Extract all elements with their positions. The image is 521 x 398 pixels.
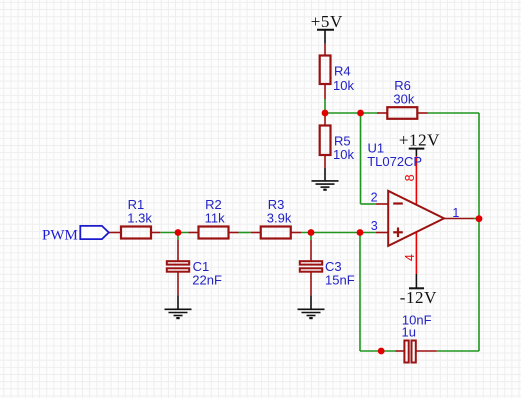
wire R2 right pin: [229, 232, 239, 234]
wire flag to R1: [109, 232, 121, 234]
wire bottom left to cap: [360, 350, 395, 352]
svg-text:8: 8: [403, 174, 417, 181]
resistor R4: [320, 56, 331, 85]
wire R6 left pin: [377, 112, 387, 114]
svg-text:-12V: -12V: [400, 288, 437, 307]
svg-text:10k: 10k: [333, 78, 354, 93]
wire R1 right pin: [151, 232, 160, 234]
capacitor C3: [300, 261, 322, 271]
svg-text:+12V: +12V: [399, 131, 440, 150]
wire main line R1 to R2: [160, 232, 188, 234]
junction node pin3: [357, 229, 364, 236]
svg-text:11k: 11k: [205, 210, 225, 225]
svg-text:10k: 10k: [333, 147, 354, 162]
svg-text:1u: 1u: [402, 325, 416, 340]
wire right rail vertical: [478, 113, 480, 351]
wire C3 bottom lead: [310, 272, 312, 296]
wire C2 right lead: [416, 350, 437, 352]
junction node divider R4/R5: [322, 110, 329, 117]
wire R4 bottom pin: [324, 84, 326, 99]
svg-text:3.9k: 3.9k: [267, 210, 292, 225]
resistor R6: [387, 107, 417, 119]
wire pin3 node down: [359, 233, 361, 352]
wire pin2 horizontal: [361, 203, 377, 205]
PWM label flag: [80, 226, 109, 239]
resistor R5: [320, 126, 331, 156]
svg-text:R6: R6: [394, 78, 411, 93]
wire C3 top lead: [310, 240, 312, 261]
svg-text:1.3k: 1.3k: [127, 210, 152, 225]
ground below C1: [165, 295, 192, 318]
op-amp U1 pin 8 supply line: [415, 156, 417, 205]
svg-text:22nF: 22nF: [192, 273, 222, 288]
wire R3 right pin: [291, 232, 301, 234]
wire main line R3 to op-amp pin 3: [301, 232, 376, 234]
wire op-amp pin 3 stub: [376, 232, 388, 234]
ground below C3: [298, 295, 325, 318]
junction node feedback branch: [357, 110, 364, 117]
power +5V symbol: [317, 30, 334, 44]
wire main line R2 to R3: [239, 232, 251, 234]
svg-text:4: 4: [403, 254, 417, 261]
capacitor C1: [167, 261, 189, 271]
wire divider node to R6: [325, 112, 377, 114]
resistor R2: [199, 227, 229, 239]
junction node bottom cap: [378, 348, 385, 355]
wire C1 top lead: [177, 240, 179, 261]
wire R6 right pin: [417, 112, 427, 114]
svg-text:+5V: +5V: [311, 12, 343, 31]
svg-text:1: 1: [452, 206, 459, 220]
wire R2 left pin: [189, 232, 199, 234]
capacitor C2 10nF/1u: [404, 341, 415, 363]
wire cap to right rail: [437, 350, 479, 352]
junction node R3/C3: [308, 229, 315, 236]
resistor R1: [121, 227, 151, 239]
power +12V symbol: [409, 149, 425, 157]
svg-text:2: 2: [371, 191, 378, 205]
wire +5V to R4: [324, 44, 326, 56]
junction node output: [476, 215, 483, 222]
op-amp U1 minus input mark: [393, 202, 403, 204]
wire C1 bottom lead: [177, 272, 179, 296]
wire R6 to right rail: [428, 112, 480, 114]
wire C2 left lead: [395, 350, 404, 352]
op-amp U1 triangle: [388, 191, 444, 246]
wire C3 branch stub: [310, 233, 312, 241]
wire node to R5 top pin: [324, 113, 326, 126]
svg-text:TL072CP: TL072CP: [367, 154, 422, 169]
svg-text:PWM: PWM: [42, 228, 78, 244]
power -12V symbol: [409, 274, 424, 288]
svg-text:3: 3: [371, 219, 378, 233]
wire node to pin2 vertical: [360, 113, 362, 204]
wire output to rail: [474, 218, 479, 220]
svg-text:30k: 30k: [393, 92, 414, 107]
wire R5 bottom pin: [324, 155, 326, 168]
wire op-amp pin 1 output stub: [444, 218, 474, 220]
junction node R1/C1: [175, 229, 182, 236]
op-amp U1 pin 4 supply line: [415, 232, 417, 274]
wire R3 left pin: [251, 232, 261, 234]
resistor R3: [261, 227, 291, 239]
wire C1 branch stub: [177, 233, 179, 241]
wire op-amp pin 2 stub: [376, 203, 388, 205]
op-amp U1 plus input mark: [393, 228, 403, 238]
wire below R4: [324, 99, 326, 113]
ground below R5: [312, 168, 339, 190]
svg-text:15nF: 15nF: [325, 273, 355, 288]
svg-text:R4: R4: [334, 64, 351, 79]
